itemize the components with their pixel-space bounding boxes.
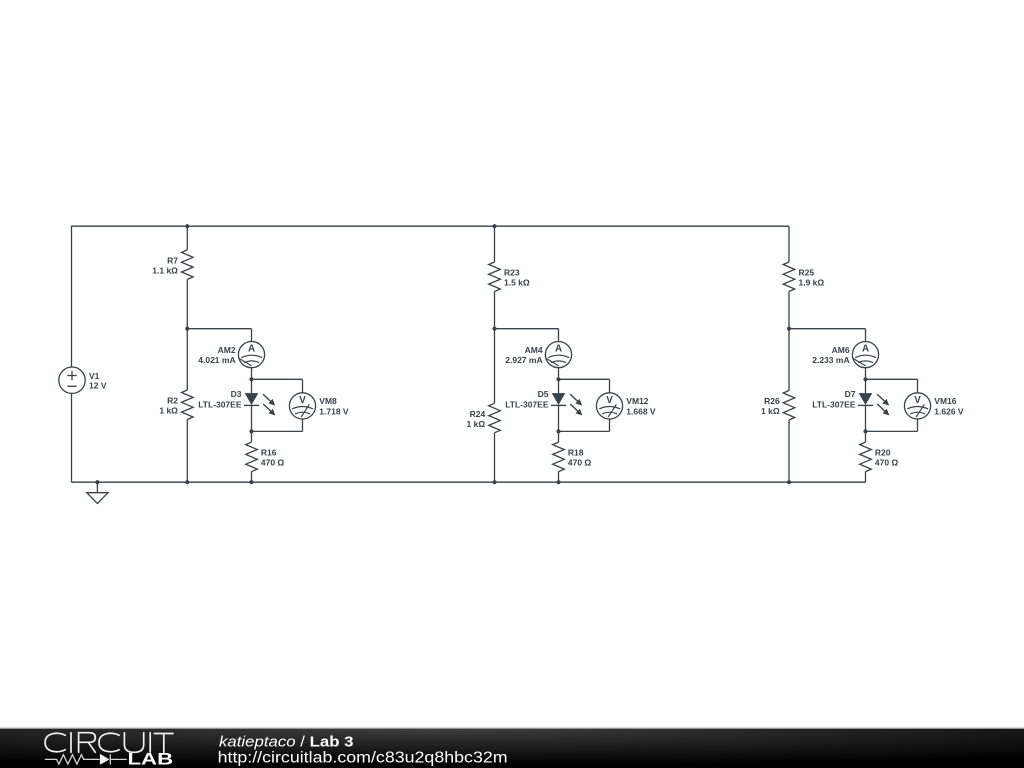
svg-text:AM6: AM6 [832, 345, 850, 355]
svg-text:LTL-307EE: LTL-307EE [198, 400, 242, 410]
svg-text:12 V: 12 V [89, 381, 107, 391]
svg-text:V1: V1 [89, 371, 100, 381]
svg-text:1 kΩ: 1 kΩ [761, 406, 780, 416]
wire ammeter AM6 to LED node [865, 368, 867, 380]
ammeter AM4 [545, 342, 571, 368]
svg-text:LAB: LAB [128, 750, 174, 768]
svg-text:VM8: VM8 [319, 396, 337, 406]
svg-text:1.718 V: 1.718 V [319, 407, 349, 417]
svg-text:R23: R23 [504, 267, 520, 277]
svg-text:1.9 kΩ: 1.9 kΩ [799, 278, 825, 288]
svg-text:VM12: VM12 [626, 396, 648, 406]
LED D7 light arrows [877, 394, 889, 415]
svg-text:1 kΩ: 1 kΩ [159, 406, 178, 416]
svg-text:1 kΩ: 1 kΩ [467, 419, 486, 429]
wire voltmeter VM12 bottom return [559, 419, 610, 431]
svg-text:V: V [606, 395, 613, 406]
svg-text:R24: R24 [470, 409, 486, 419]
junction branch 1 LED bottom node [249, 429, 253, 433]
wire ammeter AM2 to LED node [251, 368, 253, 380]
svg-text:D7: D7 [845, 389, 856, 399]
svg-text:AM4: AM4 [525, 345, 543, 355]
junction branch 1 ammeter tap [185, 327, 189, 331]
junction branch 2 bottom main [492, 480, 496, 484]
svg-text:2.233 mA: 2.233 mA [812, 355, 849, 365]
svg-text:R16: R16 [261, 448, 277, 458]
junction branch 1 bottom main [185, 480, 189, 484]
junction ground node [95, 480, 99, 484]
svg-text:R18: R18 [568, 448, 584, 458]
voltmeter VM12 [596, 393, 622, 419]
svg-text:LTL-307EE: LTL-307EE [505, 400, 549, 410]
CircuitLab logo CIRCUIT [45, 733, 173, 753]
svg-text:D3: D3 [231, 389, 242, 399]
svg-text:R20: R20 [875, 448, 891, 458]
resistor R24 [489, 403, 501, 433]
wire branch 2 to ammeter [495, 329, 559, 342]
wire branch 1 main column [186, 226, 188, 482]
svg-text:2.927 mA: 2.927 mA [505, 355, 542, 365]
svg-text:4.021 mA: 4.021 mA [198, 355, 235, 365]
wire bottom bus [72, 481, 866, 483]
wire branch 3 to ammeter [789, 329, 866, 342]
svg-text:AM2: AM2 [218, 345, 236, 355]
svg-text:470 Ω: 470 Ω [875, 458, 899, 468]
junction branch 3 ammeter tap [787, 327, 791, 331]
resistor R23 [489, 262, 501, 292]
voltage source V1 [59, 367, 85, 393]
LED D3 [244, 379, 259, 431]
junction branch 1 bottom resistor tap [249, 480, 253, 484]
wire branch 1 to ammeter [187, 329, 251, 342]
resistor R25 [783, 262, 795, 292]
logo resistor-diode glyph [45, 754, 127, 764]
svg-text:V: V [299, 395, 306, 406]
ground [87, 482, 108, 503]
svg-text:R2: R2 [167, 395, 178, 405]
svg-text:R7: R7 [167, 255, 178, 265]
svg-text:VM16: VM16 [934, 396, 956, 406]
svg-text:1.1 kΩ: 1.1 kΩ [152, 265, 178, 275]
resistor R18 [553, 431, 565, 482]
junction branch 2 ammeter tap [492, 327, 496, 331]
wire ammeter AM4 to LED node [558, 368, 560, 380]
svg-text:1.5 kΩ: 1.5 kΩ [504, 278, 530, 288]
junction branch 1 top tap [185, 224, 189, 228]
ammeter AM6 [852, 342, 878, 368]
voltmeter VM16 [904, 393, 930, 419]
resistor R16 [246, 431, 258, 482]
wire top bus [72, 225, 790, 227]
wire LED node to voltmeter VM16 [866, 379, 918, 393]
svg-text:A: A [555, 344, 562, 355]
svg-text:LTL-307EE: LTL-307EE [812, 400, 856, 410]
svg-text:D5: D5 [538, 389, 549, 399]
wire left bus lower (V1 - to bottom bus) [71, 393, 73, 482]
resistor R2 [182, 390, 194, 420]
svg-text:A: A [248, 344, 255, 355]
LED D7 [858, 379, 873, 431]
wire left bus upper (top bus to V1 +) [71, 226, 73, 367]
junction branch 1 LED top node [249, 377, 253, 381]
footer bar top border [0, 728, 1024, 729]
junction branch 3 LED top node [863, 377, 867, 381]
LED D3 light arrows [263, 394, 275, 415]
junction branch 2 bottom resistor tap [556, 480, 560, 484]
wire branch 3 main column [788, 226, 790, 482]
svg-text:1.668 V: 1.668 V [626, 407, 656, 417]
wire branch 2 main column [494, 226, 496, 482]
wire voltmeter VM16 bottom return [866, 419, 918, 431]
resistor R20 [860, 431, 872, 482]
svg-text:470 Ω: 470 Ω [261, 458, 285, 468]
junction branch 3 bottom main [787, 480, 791, 484]
junction branch 2 LED bottom node [556, 429, 560, 433]
svg-text:V: V [914, 395, 921, 406]
resistor R7 [182, 250, 194, 280]
junction branch 2 top tap [492, 224, 496, 228]
LED D5 [551, 379, 566, 431]
svg-text:R26: R26 [764, 396, 780, 406]
junction branch 2 LED top node [556, 377, 560, 381]
wire voltmeter VM8 bottom return [252, 419, 303, 431]
svg-text:A: A [862, 344, 869, 355]
ammeter AM2 [238, 342, 264, 368]
wire LED node to voltmeter VM8 [252, 379, 303, 393]
svg-text:470 Ω: 470 Ω [568, 458, 592, 468]
resistor R26 [783, 391, 795, 421]
svg-text:1.626 V: 1.626 V [934, 407, 964, 417]
junction branch 3 LED bottom node [863, 429, 867, 433]
svg-text:katieptaco / Lab 3: katieptaco / Lab 3 [219, 734, 354, 751]
LED D5 light arrows [570, 394, 582, 415]
voltmeter VM8 [289, 393, 315, 419]
svg-text:http://circuitlab.com/c83u2q8h: http://circuitlab.com/c83u2q8hbc32m [218, 749, 508, 766]
svg-text:R25: R25 [799, 267, 815, 277]
wire LED node to voltmeter VM12 [559, 379, 610, 393]
